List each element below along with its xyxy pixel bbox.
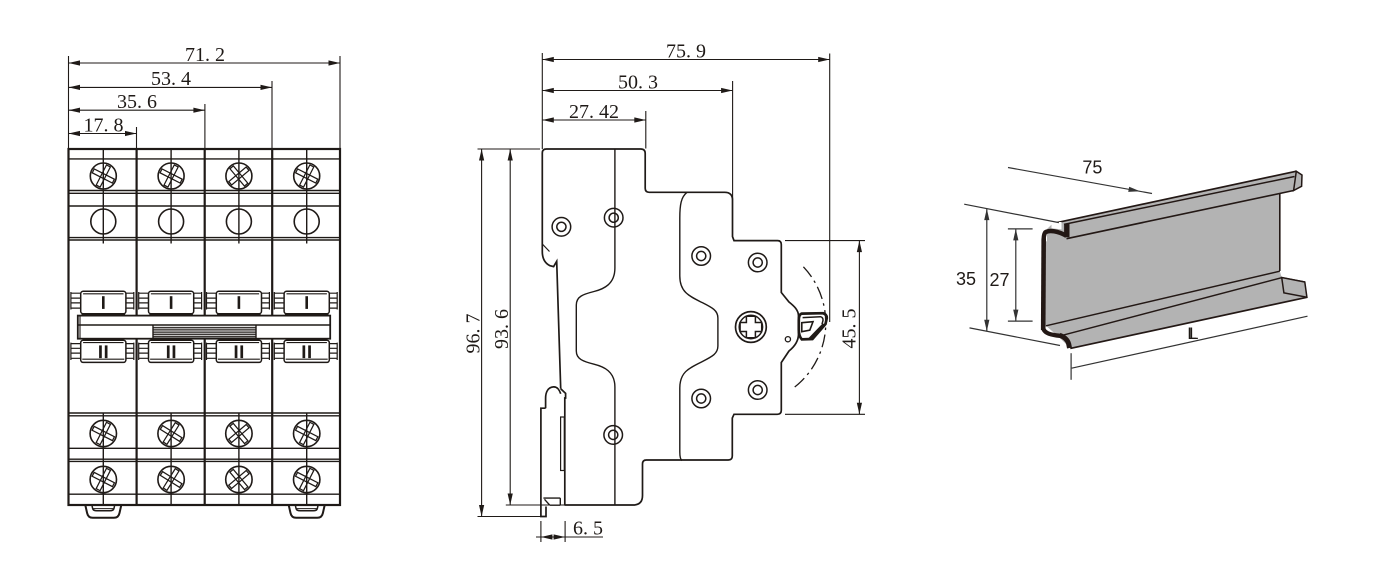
svg-text:27. 42: 27. 42 bbox=[569, 101, 619, 123]
rail top flange front-top edge bbox=[1064, 177, 1295, 225]
washer bottom-left bbox=[604, 426, 623, 445]
svg-text:35: 35 bbox=[956, 269, 976, 289]
dimension extension lines (front view top) bbox=[69, 56, 341, 149]
svg-text:17. 8: 17. 8 bbox=[84, 114, 124, 136]
75 leader line with arrow bbox=[1008, 168, 1152, 194]
clip beak bbox=[546, 387, 561, 408]
top edge ticks bbox=[103, 149, 306, 159]
rail top flange end cap bbox=[1294, 171, 1302, 190]
small pin dot bbox=[785, 337, 790, 342]
dimension line 71.2 bbox=[69, 62, 341, 64]
35 dimension guide lines bbox=[964, 204, 1060, 345]
washer mid-right upper pair bbox=[692, 247, 711, 266]
svg-text:53. 4: 53. 4 bbox=[151, 68, 191, 90]
dimension line 35.6 bbox=[69, 109, 205, 111]
internal S contour bbox=[680, 192, 718, 460]
rail top flange bottom edge / web top bbox=[1067, 191, 1294, 239]
toggle handle II boxes (OFF markers) bbox=[71, 340, 337, 362]
rail web right edge bbox=[1279, 193, 1281, 271]
swing arc (dash-dot) bbox=[793, 267, 826, 389]
svg-text:93. 6: 93. 6 bbox=[491, 309, 513, 349]
dimension extension lines (side view top) bbox=[542, 53, 829, 322]
washer top-left bbox=[552, 218, 571, 237]
rail C cross-section bottom lip front (thick) bbox=[1060, 335, 1070, 348]
rail C cross-section top hook bbox=[1044, 231, 1067, 239]
dimension line 53.4 bbox=[69, 86, 273, 88]
L dimension line bbox=[1072, 316, 1308, 368]
left face lower corner and clip arm bbox=[542, 252, 560, 389]
rail bottom flange face bbox=[1046, 271, 1307, 348]
side body outline bbox=[542, 149, 798, 505]
rail top flange back-top edge bbox=[1053, 171, 1297, 223]
rail C cross-section web left edge bbox=[1041, 239, 1046, 331]
dimension 96.7 (left vertical) bbox=[478, 149, 547, 517]
rail bottom flange junction edge bbox=[1046, 271, 1280, 326]
washer mid-right lower pair bbox=[692, 389, 711, 408]
27 dimension ticks bbox=[1008, 229, 1033, 321]
breaker body outline bbox=[69, 149, 341, 505]
svg-text:96. 7: 96. 7 bbox=[463, 314, 485, 354]
dimension line 75.9 bbox=[542, 59, 829, 61]
rail bottom flange top-front edge bbox=[1061, 278, 1305, 336]
dimension line 17.8 bbox=[69, 133, 137, 135]
toggle tie bar bbox=[78, 316, 330, 339]
phillips screw center bbox=[736, 312, 767, 343]
27 dimension line bbox=[1015, 229, 1017, 321]
terminal screws bottom row 1 bbox=[88, 417, 322, 449]
internal waist line bbox=[576, 149, 615, 505]
svg-text:35. 6: 35. 6 bbox=[117, 91, 157, 113]
white notch above top hook bbox=[1052, 222, 1062, 229]
rail bottom flange end cap bbox=[1282, 278, 1307, 298]
terminal screws top row bbox=[88, 160, 322, 192]
rail top flange face bbox=[1047, 171, 1302, 242]
rail web face bbox=[1046, 193, 1280, 326]
dimension 93.6 (left vertical) bbox=[506, 504, 565, 506]
pole center lines bbox=[103, 159, 306, 244]
svg-text:75. 9: 75. 9 bbox=[666, 40, 706, 62]
rail C cross-section bottom hook bbox=[1043, 329, 1060, 336]
DIN rail clip right (bottom of front view) bbox=[289, 506, 325, 518]
clip slot bbox=[561, 417, 565, 471]
dimension line 50.3 bbox=[542, 90, 732, 92]
svg-text:6. 5: 6. 5 bbox=[573, 518, 603, 540]
left face notch bbox=[542, 244, 549, 252]
clip outer face and foot bbox=[541, 408, 546, 516]
svg-text:45. 5: 45. 5 bbox=[839, 309, 861, 349]
svg-text:71. 2: 71. 2 bbox=[185, 44, 225, 66]
svg-text:27: 27 bbox=[989, 270, 1009, 290]
dimension 6.5 (bottom) bbox=[541, 521, 565, 542]
dimension 45.5 (right vertical) bbox=[785, 241, 865, 415]
terminal screws bottom row 2 bbox=[88, 463, 322, 495]
svg-text:50. 3: 50. 3 bbox=[618, 71, 658, 93]
pole divider 2 bbox=[204, 149, 206, 505]
svg-text:75: 75 bbox=[1082, 158, 1102, 178]
pole divider 3 bbox=[271, 149, 273, 505]
toggle handle I boxes (ON markers) bbox=[71, 291, 337, 316]
clip latch tooth bbox=[543, 498, 560, 505]
pole divider 1 bbox=[136, 149, 138, 505]
svg-text:L: L bbox=[1188, 325, 1197, 343]
rail bottom flange bottom edge bbox=[1070, 297, 1307, 348]
round holes row bbox=[91, 209, 116, 234]
rail C cross-section lip front (top, thick) bbox=[1064, 224, 1069, 237]
horizontal body lines bottom section bbox=[69, 413, 341, 494]
washer top-mid bbox=[604, 208, 623, 227]
dimension line 27.42 bbox=[542, 119, 646, 121]
35 dimension line bbox=[986, 209, 988, 332]
toggle lever (black) bbox=[799, 313, 827, 339]
DIN rail clip left (bottom of front view) bbox=[85, 506, 121, 518]
horizontal body lines top section bbox=[69, 159, 341, 240]
